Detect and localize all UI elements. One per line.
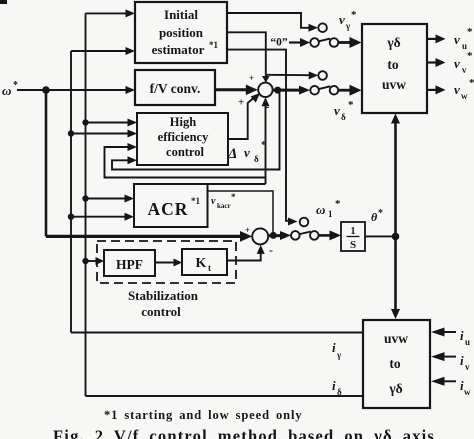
switch circle: omega-1 row left — [291, 231, 300, 240]
wire: i-delta vertical bus B — [85, 13, 87, 396]
node: bus B dot at HPF input — [82, 258, 88, 264]
svg-text:i: i — [332, 378, 336, 393]
svg-text:v: v — [334, 103, 340, 118]
svg-text:ω: ω — [316, 202, 325, 217]
wire: omega-1 common to 1/s — [319, 234, 331, 237]
node: bus A dot at high-eff input — [68, 130, 74, 136]
svg-text:v: v — [454, 56, 460, 71]
svg-text:control: control — [141, 304, 181, 319]
svg-text:u: u — [465, 337, 470, 347]
svg-text:+: + — [238, 97, 244, 109]
svg-text:v: v — [454, 32, 460, 47]
svg-text:ω: ω — [2, 83, 11, 98]
svg-text:High: High — [170, 115, 196, 129]
label: uvw to γδ — [384, 331, 408, 396]
svg-text:v: v — [211, 196, 216, 207]
wire: estimator output 1 — [227, 13, 310, 28]
svg-text:w: w — [461, 91, 468, 101]
svg-text:δ: δ — [337, 387, 342, 397]
label: Kt — [196, 256, 211, 273]
node: omega-1 row dot — [270, 232, 277, 239]
wire: current input i_u — [444, 331, 456, 333]
svg-text:*: * — [469, 77, 474, 89]
svg-text:γ: γ — [345, 21, 351, 31]
svg-text:*: * — [467, 26, 473, 38]
wire: f/V output to S1 — [215, 88, 247, 91]
svg-text:to: to — [389, 356, 400, 371]
wire: omega* to f/V conv input — [46, 89, 126, 91]
block: High efficiency control — [137, 113, 228, 165]
wire: gamma common to converter block — [339, 41, 352, 44]
svg-text:i: i — [460, 353, 464, 368]
svg-text:δ: δ — [341, 112, 346, 122]
svg-text:uvw: uvw — [382, 77, 406, 92]
summing junction S1 (v-delta sum) — [258, 83, 272, 97]
switch circle: delta-row left — [310, 86, 319, 95]
label: 1/S fraction — [350, 226, 356, 251]
wire: output 2 tee to delta contact — [266, 74, 310, 76]
wire: theta vertical between converters — [394, 117, 397, 315]
wire: bus A top to estimator input 2 — [71, 50, 126, 52]
wire: bus B to HPF input — [86, 260, 97, 262]
svg-text:1: 1 — [351, 226, 356, 237]
switch blade: omega-1 channel — [300, 232, 311, 234]
svg-text:Δ: Δ — [227, 146, 237, 162]
svg-text:v: v — [454, 82, 460, 97]
wire: ACR output to omega-1 row — [208, 191, 273, 235]
block: f/V conv. — [135, 70, 215, 105]
svg-text:-: - — [266, 102, 269, 113]
wire: omega* lead-in — [17, 89, 46, 91]
svg-text:*: * — [231, 192, 236, 202]
label: ACR*1 — [148, 196, 201, 219]
node: theta junction dot — [392, 233, 400, 241]
wire: omega* vertical bus — [45, 90, 48, 236]
svg-text:γδ: γδ — [386, 35, 400, 50]
wire: output 2 drop into S1 top — [265, 75, 267, 77]
svg-text:*: * — [348, 99, 354, 111]
wire: converter output v_v — [427, 61, 437, 63]
wire: delta common to converter block — [339, 89, 352, 92]
wire: i-delta output line — [86, 395, 364, 397]
svg-text:*: * — [261, 139, 267, 151]
svg-text:+: + — [245, 225, 250, 235]
label: High efficiency control — [158, 115, 209, 159]
svg-text:efficiency: efficiency — [158, 130, 209, 144]
svg-text:Stabilization: Stabilization — [128, 288, 199, 303]
wire: bus B top to estimator input 1 — [86, 12, 127, 14]
wire: bus A to ACR input 2 — [71, 216, 125, 218]
summing junction S2 (omega-1 sum) — [252, 228, 268, 244]
svg-text:*: * — [467, 50, 473, 62]
svg-text:*1 starting and low speed only: *1 starting and low speed only — [104, 408, 302, 422]
wire: i-gamma output line — [71, 332, 363, 334]
wire: S1 output with junction — [273, 89, 301, 92]
svg-text:estimator: estimator — [152, 42, 205, 57]
label: Initial position estimator *1 — [152, 7, 219, 57]
block: 1/s integrator — [341, 222, 365, 251]
block: ACR*1 — [134, 184, 208, 227]
svg-text:i: i — [460, 328, 464, 343]
wire: S1 bottom feed vertical — [265, 99, 267, 184]
label: Stabilization control — [128, 288, 199, 319]
svg-text:t: t — [208, 263, 211, 273]
wire: bus B to high-eff input 1 — [86, 122, 129, 124]
svg-text:*: * — [378, 208, 383, 219]
wire: estimator output 3 down to omega-1 contact — [227, 50, 289, 221]
block: Kt — [182, 249, 227, 275]
svg-text:ACR: ACR — [148, 199, 189, 219]
switch blade: delta channel — [319, 86, 330, 89]
svg-text:*: * — [13, 80, 18, 91]
svg-text:v: v — [244, 145, 250, 160]
node: bus B dot at ACR input — [82, 195, 88, 201]
svg-text:f/V conv.: f/V conv. — [150, 81, 201, 96]
svg-text:v: v — [339, 12, 345, 27]
wire: omega* bottom horizontal to S2 — [46, 235, 241, 238]
svg-text:kacr: kacr — [217, 202, 231, 210]
node: bus A dot at ACR input — [68, 214, 74, 220]
svg-text:control: control — [166, 145, 204, 159]
svg-text:position: position — [159, 25, 204, 40]
svg-text:+: + — [249, 73, 254, 83]
wire: i-gamma vertical bus A — [70, 51, 72, 333]
switch circle: zero-row left — [310, 38, 319, 47]
svg-text:-: - — [269, 243, 273, 257]
wire: bus A to high-eff input 2 — [71, 133, 128, 135]
wire: Kt output to S2 bottom — [227, 252, 261, 261]
wire: current input i_w — [444, 380, 456, 382]
svg-text:γδ: γδ — [388, 381, 402, 396]
switch contact: v-gamma start contact — [318, 23, 327, 32]
wire: zero input to switch — [289, 41, 301, 43]
svg-text:Initial: Initial — [164, 7, 198, 22]
wire: v-delta feedback from S1 dot down — [112, 90, 280, 169]
svg-text:HPF: HPF — [116, 257, 143, 272]
wire: 1/s output to theta vertical — [365, 235, 396, 237]
svg-text:to: to — [387, 57, 398, 72]
wire: HPF to Kt — [155, 262, 174, 264]
block: gamma-delta to uvw converter — [362, 24, 427, 113]
node: omega* junction dot — [42, 86, 50, 94]
wire: converter output v_u — [427, 38, 437, 40]
wire: high-eff delta-v output to S1 diagonal — [228, 98, 254, 139]
switch circle: omega-1 common — [310, 231, 319, 240]
switch blade: gamma channel — [319, 39, 330, 42]
node: S1 output dot — [274, 87, 281, 94]
block: HPF — [104, 250, 155, 276]
switch contact: v-delta start contact — [318, 71, 327, 80]
svg-text:*: * — [351, 9, 357, 21]
fraction bar of 1/s — [347, 236, 360, 238]
svg-text:*: * — [335, 198, 341, 210]
svg-text:w: w — [464, 387, 471, 397]
wire: ACR top edge extension — [208, 183, 266, 185]
svg-text:i: i — [332, 340, 336, 355]
svg-text:S: S — [350, 239, 356, 251]
svg-text:v: v — [462, 65, 467, 75]
svg-text:Fig. 2 V/f control method bas: Fig. 2 V/f control method based on γδ ax… — [53, 427, 435, 439]
wire: S2 output — [268, 234, 282, 237]
svg-text:γ: γ — [336, 350, 342, 360]
svg-text:K: K — [196, 256, 207, 271]
switch circle: gamma common — [330, 38, 339, 47]
scan speck top-left corner — [0, 0, 7, 4]
svg-text:δ: δ — [254, 154, 259, 164]
wire: current input i_v — [444, 356, 456, 358]
block: uvw to gamma-delta converter — [363, 320, 430, 408]
svg-text:v: v — [465, 362, 470, 372]
svg-text:uvw: uvw — [384, 331, 408, 346]
svg-text:“0”: “0” — [270, 37, 288, 49]
wire: converter output v_w — [427, 89, 437, 91]
wire: loop B feedback to high-eff — [105, 147, 266, 178]
svg-text:*1: *1 — [209, 40, 219, 50]
wire: estimator output 2 — [227, 32, 266, 75]
svg-text:θ: θ — [371, 210, 378, 224]
svg-text:*1: *1 — [191, 196, 201, 206]
block: Initial position estimator — [135, 2, 227, 63]
node: bus B dot at high-eff input — [82, 119, 88, 125]
switch circle: delta common — [330, 86, 339, 95]
label: γδ to uvw — [382, 35, 406, 92]
switch contact: omega-1 start contact — [300, 218, 309, 227]
dashed box: stabilization control group — [97, 241, 236, 283]
wire: bus B to ACR input 1 — [86, 198, 126, 200]
svg-text:1: 1 — [328, 209, 333, 219]
